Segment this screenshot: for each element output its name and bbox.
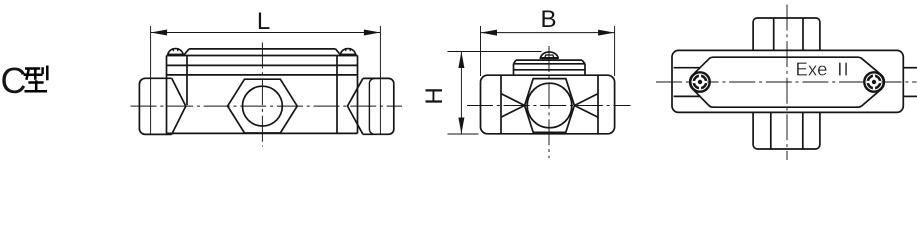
svg-text:II: II [837,59,850,80]
svg-text:Exe: Exe [796,59,828,80]
svg-text:C: C [1,60,27,101]
svg-text:H: H [421,87,448,104]
svg-text:B: B [540,6,556,33]
svg-text:L: L [257,8,270,35]
